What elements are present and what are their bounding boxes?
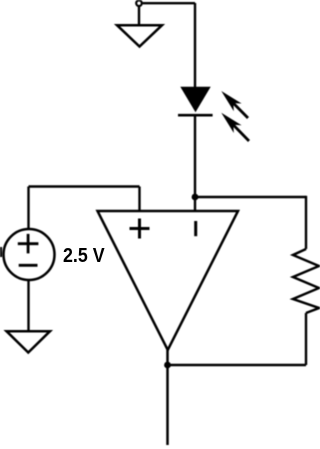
voltage source plus sign [18,234,39,254]
edge clipped mark left [0,247,2,257]
ground bottom [7,331,51,352]
wire right rail down to resistor [305,196,307,249]
resistor R1 zigzag [293,249,319,313]
wire resistor bottom to output rail [305,313,307,365]
wire junction stub into op-amp minus input [194,197,196,211]
wire LED cathode to junction [194,117,196,198]
wire left loop horizontal [29,185,140,187]
op-amp U1 triangle [98,211,239,350]
wire junction to right rail [195,196,306,198]
wire output horizontal [168,364,307,366]
node output dot [164,362,171,369]
voltage source minus sign [19,264,38,267]
photodiode light arrow upper [221,91,248,118]
ground top [117,25,162,46]
diode D1 cathode bar [178,114,213,117]
wire ground stub vertical [138,7,140,25]
wire source bottom to ground [27,280,29,331]
node terminal ring top [136,0,142,6]
diode D1 anode triangle [180,87,210,112]
value label 2.5 V [63,244,105,268]
wire LED anode vertical [194,3,196,88]
wire left loop down to source [27,187,29,231]
photodiode light arrow lower [221,113,249,141]
op-amp plus input symbol [130,219,150,239]
voltage source V1 circle [4,229,55,280]
wire op-amp output [166,350,169,445]
node junction dot inverting input [192,194,199,201]
wire plus input stub up [138,187,140,212]
wire top horizontal from ground stub to LED branch [143,2,195,4]
op-amp minus input symbol (rotated) [194,221,197,236]
